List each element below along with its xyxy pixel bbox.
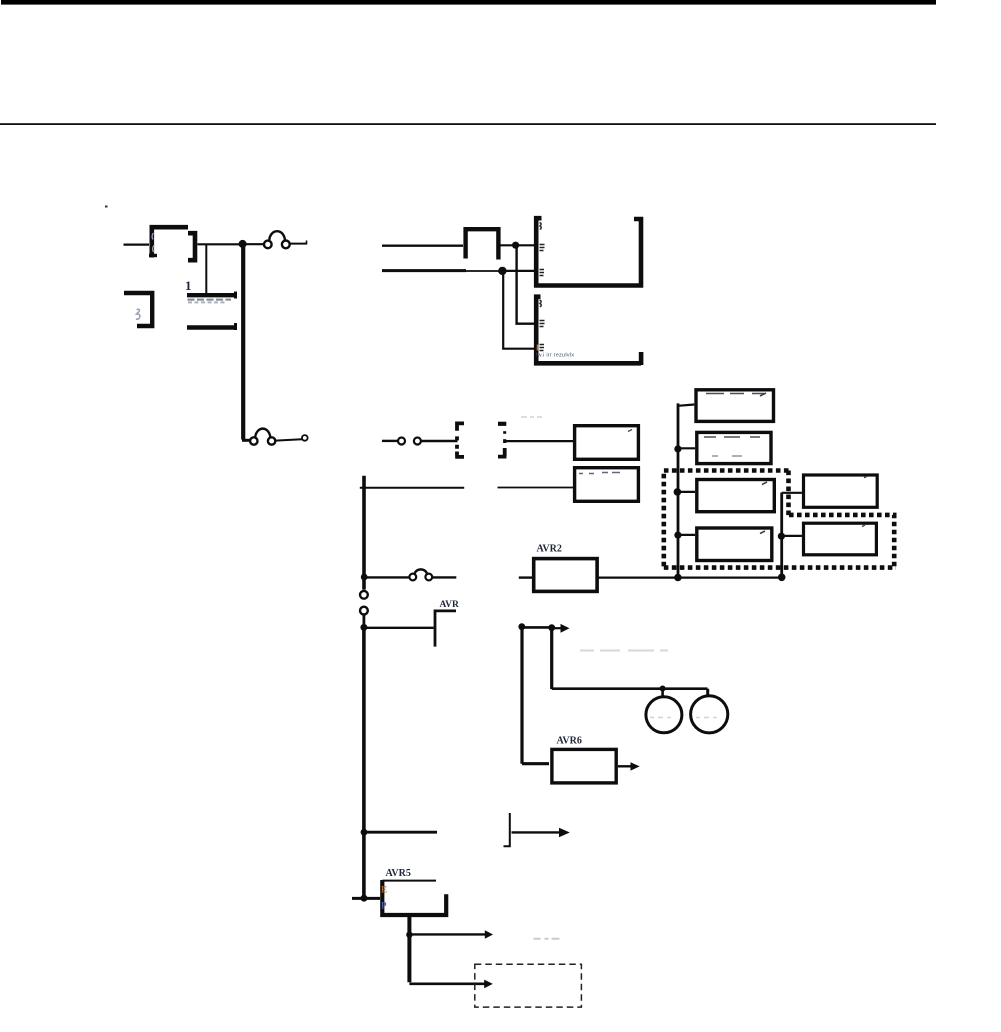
svg-text:1: 1 bbox=[185, 278, 192, 293]
svg-text:AVR2: AVR2 bbox=[537, 544, 562, 555]
svg-text:AVR5: AVR5 bbox=[386, 868, 411, 879]
svg-text:P: P bbox=[381, 901, 387, 911]
svg-text:lw.i irr rezulvlx: lw.i irr rezulvlx bbox=[536, 352, 574, 358]
svg-text:E: E bbox=[381, 885, 387, 895]
svg-text:AVR: AVR bbox=[440, 600, 459, 610]
svg-text:AVR6: AVR6 bbox=[557, 736, 582, 747]
